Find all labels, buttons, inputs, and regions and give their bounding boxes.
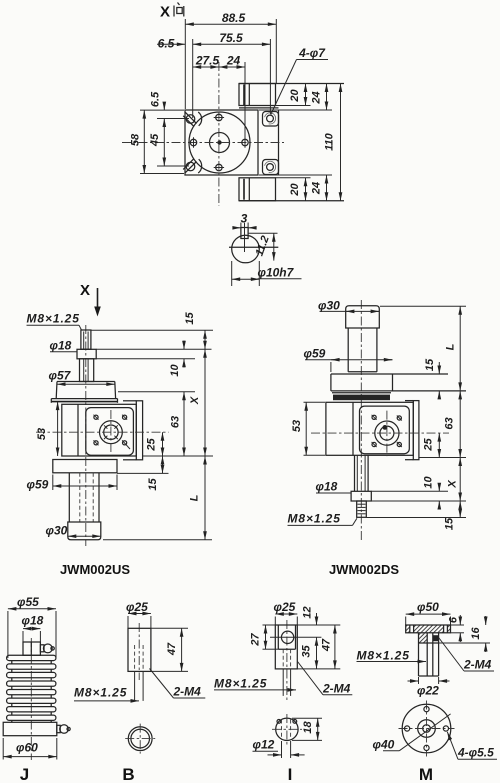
J top collar with clamp xyxy=(23,642,54,655)
svg-text:15: 15 xyxy=(147,478,159,491)
dim 24 top right xyxy=(239,84,344,111)
svg-text:φ60: φ60 xyxy=(16,741,38,755)
US panel screw bottom-left xyxy=(94,440,99,445)
svg-text:47: 47 xyxy=(321,638,333,652)
DS extension lines right xyxy=(367,306,467,517)
B bottom view xyxy=(125,724,155,754)
svg-text:27.5: 27.5 xyxy=(195,54,220,68)
svg-text:φ25: φ25 xyxy=(274,600,296,614)
svg-text:12: 12 xyxy=(302,606,314,618)
dim 15 top DS xyxy=(424,358,439,398)
I body block xyxy=(275,625,297,669)
svg-text:25: 25 xyxy=(423,438,435,452)
dim X DS xyxy=(447,458,461,502)
svg-text:JWM002US: JWM002US xyxy=(60,562,130,577)
svg-text:110: 110 xyxy=(324,132,336,150)
I hidden thread xyxy=(283,649,290,696)
svg-text:φ12: φ12 xyxy=(253,738,275,752)
dim L DS xyxy=(445,306,461,391)
bolt circle mark left xyxy=(190,137,196,147)
DS stop collar phi18 xyxy=(351,491,371,501)
svg-text:J: J xyxy=(20,765,29,783)
label 4-phi5.5 M xyxy=(447,732,497,760)
svg-text:M8×1.25: M8×1.25 xyxy=(214,677,267,691)
dim 3 key width xyxy=(233,212,255,232)
svg-text:M: M xyxy=(419,765,433,783)
dim X US xyxy=(189,349,205,456)
dim phi59 DS xyxy=(304,347,393,373)
dim phi30 DS xyxy=(318,299,379,313)
M bolt hole top xyxy=(424,707,429,712)
svg-text:20: 20 xyxy=(289,89,301,103)
svg-text:φ30: φ30 xyxy=(46,524,68,538)
dim 20 top right xyxy=(276,84,311,106)
svg-text:4-φ5.5: 4-φ5.5 xyxy=(457,746,494,760)
bolt circle mark top xyxy=(214,114,224,120)
label M8x1.25 B xyxy=(74,686,139,701)
M bolt hole left xyxy=(405,726,410,731)
svg-text:58: 58 xyxy=(130,133,142,146)
svg-text:3: 3 xyxy=(241,212,248,226)
svg-text:16: 16 xyxy=(470,627,482,640)
dim 25 DS xyxy=(423,433,440,457)
M bolt hole right xyxy=(443,726,448,731)
US bottom cap phi30 xyxy=(68,522,101,540)
top view gearbox body outline xyxy=(185,110,279,175)
US stop collar phi18 xyxy=(77,349,96,359)
DS panel screw bottom-right xyxy=(397,442,402,447)
DS top cap phi30 xyxy=(346,306,380,328)
svg-text:I: I xyxy=(288,765,293,783)
US lifting screw shank xyxy=(80,359,94,382)
shaft section detail circle xyxy=(229,235,278,263)
J bellows folds xyxy=(7,655,56,722)
svg-text:L: L xyxy=(189,494,201,501)
svg-text:JWM002DS: JWM002DS xyxy=(329,562,399,577)
US bottom tube xyxy=(69,473,99,522)
svg-text:2-M4: 2-M4 xyxy=(322,682,351,696)
label phi18 US xyxy=(50,339,77,353)
key on shaft xyxy=(241,223,248,252)
dim 75.5 xyxy=(193,31,271,118)
DS panel screw top-left xyxy=(372,415,377,420)
DS top flange phi59 xyxy=(331,374,466,391)
svg-text:75.5: 75.5 xyxy=(219,31,243,45)
svg-text:φ59: φ59 xyxy=(304,347,326,361)
dim 10 US xyxy=(169,341,184,377)
label M8x1.25 US xyxy=(27,312,82,331)
svg-text:L: L xyxy=(445,343,457,350)
US extension lines right xyxy=(92,330,214,540)
dim 63 DS xyxy=(444,391,461,458)
dim phi30 US xyxy=(46,524,101,538)
US panel screw bottom-right xyxy=(122,440,130,449)
top view centerline vertical xyxy=(218,62,220,206)
svg-text:10: 10 xyxy=(423,476,435,489)
svg-text:6.5: 6.5 xyxy=(158,37,175,51)
svg-text:M8×1.25: M8×1.25 xyxy=(288,512,341,526)
svg-text:X: X xyxy=(189,396,201,405)
svg-text:X: X xyxy=(80,282,90,299)
svg-text:M8×1.25: M8×1.25 xyxy=(357,649,410,663)
dim 53 US xyxy=(36,402,58,456)
US panel screw top-left xyxy=(94,415,99,420)
dim 47 I xyxy=(297,625,340,669)
dim 35 I xyxy=(301,637,317,669)
dim 16 M xyxy=(439,616,490,652)
dim 15 bottom DS xyxy=(444,501,461,530)
DS bore centerline horizontal xyxy=(311,432,449,434)
dim 15 lower US xyxy=(147,456,163,491)
svg-text:M8×1.25: M8×1.25 xyxy=(74,686,127,700)
dim 47 B xyxy=(151,628,188,671)
US threaded stud M8 xyxy=(81,330,91,349)
dim 10 DS xyxy=(423,476,440,509)
svg-text:24: 24 xyxy=(226,54,241,68)
I bottom view xyxy=(272,714,302,745)
svg-text:53: 53 xyxy=(291,420,303,432)
dim 88.5 top xyxy=(185,11,276,109)
label phi18 DS xyxy=(316,480,352,494)
B centerline xyxy=(138,623,140,680)
dim L US xyxy=(189,456,206,540)
svg-text:27: 27 xyxy=(250,633,262,647)
svg-text:6.5: 6.5 xyxy=(150,91,162,107)
dim phi50 M xyxy=(406,600,451,625)
svg-text:15: 15 xyxy=(444,517,456,530)
dim phi59 US xyxy=(27,475,118,492)
svg-text:45: 45 xyxy=(149,133,161,147)
US top flange phi57 xyxy=(51,382,117,403)
flange pad with hole top-right xyxy=(263,112,279,127)
svg-text:2-M4: 2-M4 xyxy=(463,658,492,672)
svg-text:24: 24 xyxy=(311,182,323,195)
dim phi22 M xyxy=(408,677,450,698)
DS top tube xyxy=(348,328,377,372)
US housing body xyxy=(62,404,137,456)
dim 12 I xyxy=(302,606,317,625)
top mounting tab xyxy=(239,84,279,108)
DS side plate xyxy=(405,401,419,460)
svg-text:φ30: φ30 xyxy=(318,299,340,313)
bolt circle mark right xyxy=(242,137,248,147)
dim phi10h7 xyxy=(232,261,302,286)
M bolt hole bottom xyxy=(424,745,429,750)
DS housing body xyxy=(326,402,413,455)
svg-text:18: 18 xyxy=(302,721,314,734)
label 4-phi7 with leader xyxy=(271,46,328,115)
dim 110 right xyxy=(324,84,341,201)
label 2-M4 B xyxy=(150,669,206,699)
top view worm wheel housing circle xyxy=(189,112,250,173)
label M8x1.25 I xyxy=(214,677,296,691)
svg-text:10: 10 xyxy=(169,364,181,377)
dim 6.5 vertical left xyxy=(140,91,189,119)
dim 53 DS xyxy=(291,402,325,455)
dim 27.5 and 24 xyxy=(193,54,245,140)
J centerline xyxy=(30,638,32,760)
svg-text:X: X xyxy=(160,4,170,21)
dim 15 upper US xyxy=(184,312,205,350)
label M8x1.25 M xyxy=(357,649,427,663)
I cross hole phi12 xyxy=(270,631,321,643)
svg-text:φ55: φ55 xyxy=(17,595,39,609)
dim 63 US xyxy=(170,392,185,456)
DS bearing ring dark band xyxy=(332,393,391,400)
dim 6.5 horizontal xyxy=(157,37,185,51)
US cover panel xyxy=(86,408,134,456)
svg-text:B: B xyxy=(122,765,134,783)
slot hole bottom-left xyxy=(183,159,201,173)
bottom mounting tab xyxy=(239,178,276,201)
dim 6 M xyxy=(448,615,465,642)
view label X-direction xyxy=(160,3,184,21)
DS input bore xyxy=(375,421,399,445)
label 2-M4 I xyxy=(298,662,353,696)
svg-text:63: 63 xyxy=(444,417,456,429)
dim phi60 J xyxy=(3,738,57,760)
section arrow X xyxy=(80,282,101,317)
svg-text:2-M4: 2-M4 xyxy=(173,685,202,699)
B hidden thread below xyxy=(135,671,144,701)
dim 25 US xyxy=(146,432,163,456)
dim phi12 I bottom xyxy=(253,738,305,759)
svg-text:φ57: φ57 xyxy=(49,369,72,383)
svg-text:24: 24 xyxy=(311,91,323,104)
US panel screw top-right xyxy=(122,415,127,420)
dim 27 I xyxy=(250,625,279,649)
DS cover panel xyxy=(360,406,410,454)
DS screw shank down xyxy=(355,455,369,491)
dim phi25 I xyxy=(274,600,298,625)
label M8x1.25 DS xyxy=(288,512,357,526)
US screw axis centerline xyxy=(85,325,87,546)
dim 20 bottom right xyxy=(276,178,311,201)
svg-text:X: X xyxy=(447,480,459,489)
label phi40 M xyxy=(373,714,451,752)
dim phi57 xyxy=(49,369,115,385)
svg-text:20: 20 xyxy=(289,183,301,197)
svg-text:25: 25 xyxy=(146,438,158,452)
svg-text:88.5: 88.5 xyxy=(222,11,246,25)
svg-text:φ18: φ18 xyxy=(50,339,72,353)
slot hole top-left xyxy=(183,112,201,127)
dim phi18 J xyxy=(22,614,44,643)
dim 58 left xyxy=(130,110,185,173)
bolt circle mark bottom xyxy=(214,164,224,170)
I centerline xyxy=(286,620,288,700)
svg-text:53: 53 xyxy=(36,428,48,440)
top view centerline horizontal xyxy=(122,142,284,144)
J bottom cuff with clamp xyxy=(3,722,70,735)
svg-text:φ50: φ50 xyxy=(417,600,439,614)
dim 11.2 xyxy=(249,233,278,260)
svg-text:φ25: φ25 xyxy=(126,600,148,614)
dim phi25 B xyxy=(126,600,151,628)
svg-text:M8×1.25: M8×1.25 xyxy=(27,312,80,326)
DS screw axis centerline xyxy=(360,300,362,540)
svg-text:φ18: φ18 xyxy=(316,480,338,494)
M flange plate section xyxy=(406,625,451,633)
US side plate xyxy=(123,401,143,460)
dim 18 I xyxy=(292,718,322,740)
svg-text:φ10h7: φ10h7 xyxy=(258,266,295,280)
svg-text:φ18: φ18 xyxy=(22,614,44,628)
svg-text:φ40: φ40 xyxy=(373,738,395,752)
flange pad with hole bottom-right xyxy=(263,160,279,175)
svg-text:15: 15 xyxy=(184,312,196,325)
DS panel screw top-right xyxy=(397,416,402,421)
svg-text:φ59: φ59 xyxy=(27,478,49,492)
B cylinder body xyxy=(128,628,151,671)
dim phi55 J xyxy=(8,595,56,658)
US bore centerline vertical xyxy=(110,410,112,453)
svg-text:63: 63 xyxy=(170,416,182,428)
dim 45 left xyxy=(149,119,189,167)
US input bore xyxy=(100,421,123,444)
svg-text:35: 35 xyxy=(301,645,313,658)
M bottom view flange face xyxy=(399,701,455,757)
svg-text:47: 47 xyxy=(166,642,178,656)
label 2-M4 M xyxy=(439,638,494,672)
US bore centerline horizontal xyxy=(36,431,169,433)
DS panel screw bottom-left xyxy=(372,442,377,447)
svg-text:φ22: φ22 xyxy=(417,684,439,698)
DS threaded stud M8 xyxy=(357,501,367,517)
dim 24 bottom right xyxy=(239,175,344,201)
M hub section xyxy=(419,633,439,676)
US base flange phi59 xyxy=(53,460,117,473)
svg-text:15: 15 xyxy=(424,358,436,371)
DS bore centerline vertical xyxy=(386,411,388,457)
svg-text:4-φ7: 4-φ7 xyxy=(298,46,326,60)
svg-text:6: 6 xyxy=(448,616,460,623)
